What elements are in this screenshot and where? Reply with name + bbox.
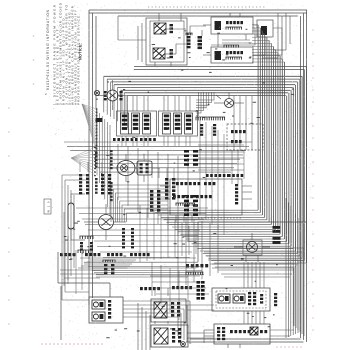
right lower verticals [285, 198, 287, 338]
switch chain SC1 [79, 174, 82, 176]
center corner wires [196, 92, 214, 100]
module row 1 [176, 182, 179, 185]
frame outer top [89, 9, 307, 11]
top-center element box [146, 18, 187, 65]
door lock box dashes [198, 217, 242, 219]
left margin perforation dots [8, 107, 10, 109]
terminal row TRB [107, 253, 110, 256]
top dotted fold line [148, 6, 266, 8]
chain TC5 [122, 228, 125, 230]
connector comb P5 [195, 117, 197, 120]
bank lower glyph row [113, 138, 116, 141]
plug block P6 [104, 264, 107, 267]
left feeder wires [61, 175, 63, 300]
switch group A box [117, 111, 157, 136]
terminal comb TR [223, 45, 225, 48]
door lock box [198, 222, 306, 262]
relay RLB [92, 312, 105, 321]
door switch leads [84, 221, 99, 223]
bundle bottom corner wires [214, 262, 307, 264]
frame bottom right [190, 338, 301, 340]
fuse link F1 [68, 203, 74, 229]
relay pair drops left [137, 303, 139, 350]
terminal ring [94, 90, 99, 95]
chain top leads [79, 162, 81, 172]
bundle top corner links [252, 61, 285, 63]
terminal chain TC1 [95, 152, 98, 154]
connector block P3 [187, 36, 191, 38]
door switch motor M4 [99, 215, 114, 230]
svg-text:W10: W10 [47, 201, 51, 213]
board components [231, 130, 234, 133]
oven fan icon [154, 328, 168, 344]
relay side chain [274, 293, 277, 295]
control board dashed box [227, 124, 263, 150]
infinite switch SW1 [121, 113, 129, 134]
terminal stack TS1 [197, 281, 201, 284]
bottom row box [214, 324, 270, 344]
connector pigtails B [213, 124, 216, 126]
wires top-center [166, 28, 186, 30]
svg-text:8101P641-60 WIRING INFORMATIO: 8101P641-60 WIRING INFORMATION [46, 9, 50, 90]
mid cross verticals [199, 118, 201, 215]
relay stack R2 [165, 178, 168, 181]
terminal chain TC4 [110, 182, 113, 184]
relay RL1 [218, 294, 230, 303]
lock cluster extra harness [212, 263, 298, 265]
limit switch row A [226, 21, 229, 24]
lock motor M5 [247, 242, 258, 253]
left feeder horizontals [62, 174, 89, 176]
module row 2 [173, 195, 176, 198]
convection fan icon [154, 302, 167, 318]
harness wires above lock cluster [202, 247, 304, 249]
latch motor leads [214, 102, 225, 104]
bottom margin dotted line [41, 343, 43, 345]
limit switch row B [226, 51, 229, 54]
pilot glyph row [140, 287, 143, 290]
fan circle terminal [181, 342, 186, 347]
bottom-center harness wires [80, 257, 196, 259]
wires top-right [203, 24, 211, 26]
module cross verticals [231, 150, 233, 184]
surface element SU1 [154, 23, 166, 34]
bundle corner stubs down [177, 215, 179, 288]
ground strap [58, 282, 110, 284]
clock side glyph R [120, 91, 123, 93]
interlock comb [79, 236, 81, 239]
lower-left mesh v [139, 205, 141, 262]
infinite switch SW4 [163, 113, 171, 134]
oven sensor box [257, 20, 273, 37]
chain box lower [151, 325, 188, 347]
splice beads SP1 [273, 226, 281, 229]
vertical feeders through cluster [243, 262, 245, 288]
relay contacts RL [248, 292, 251, 294]
connector column CCB [184, 195, 189, 198]
lower-left corner nest [78, 267, 128, 269]
top-right circuit box B [211, 47, 253, 63]
wires at clock [97, 95, 107, 97]
chain TC6 [131, 228, 134, 230]
infinite switch SW3 [143, 113, 151, 134]
oven light assembly [117, 161, 135, 176]
bottom harness wires [150, 275, 200, 277]
fan terminal strip [96, 108, 98, 156]
infinite switch SW5 [174, 113, 182, 134]
terminal row TRA [60, 253, 63, 256]
frame right border [300, 16, 302, 338]
bus left corner drops [103, 76, 105, 112]
latch relay box [212, 288, 270, 311]
thermal fuse [96, 118, 103, 122]
connector pigtails A [200, 124, 203, 126]
module-bundle links [198, 144, 244, 146]
relay pair wires [123, 300, 190, 302]
oven sensor icon [261, 26, 267, 35]
switch bank top leads [121, 96, 123, 111]
igniter row [186, 264, 189, 267]
stack leads [151, 168, 153, 178]
switch chain SC4 [108, 174, 111, 176]
link glyph row [206, 174, 209, 177]
fan terminal strip 2 [94, 147, 96, 148]
relay contacts [108, 300, 111, 303]
relay stack R1 [150, 190, 153, 193]
switch chain SC2 [86, 174, 89, 176]
interlock comb 2 [77, 250, 79, 253]
infinite switch SW6 [185, 113, 193, 134]
right wire bundle [306, 67, 308, 264]
svg-text:NOTICE:: NOTICE: [79, 43, 83, 60]
fuse leads [70, 194, 72, 203]
bottom row glyphs [217, 327, 220, 329]
mid harness drops [117, 144, 119, 200]
connector column CCA [184, 150, 189, 153]
relay stack R3 [172, 178, 175, 181]
latch motor M3 [225, 99, 234, 108]
relay RL2 [233, 294, 245, 303]
splice beads SP2 [273, 237, 281, 240]
lock motor frame [243, 240, 262, 255]
module column [235, 184, 238, 186]
switch module leads [152, 167, 160, 169]
switch bank bottom leads [121, 136, 123, 146]
surface element SU2 [153, 48, 165, 59]
bottom row wires [270, 329, 294, 331]
broil element icon [215, 21, 222, 30]
top-right feeder wires [277, 13, 279, 58]
bottom band harness [92, 267, 196, 269]
mid harness wires [64, 141, 252, 143]
module wires [160, 185, 170, 187]
clock side glyph L [104, 91, 107, 93]
chain box upper [151, 299, 186, 322]
relay pair drops [189, 301, 191, 344]
top-right circuit box A [211, 17, 253, 34]
harness fan-out [82, 104, 97, 109]
switch group B box [159, 111, 198, 136]
wire color code labels [187, 51, 190, 54]
terminal chain TC2 [95, 178, 98, 180]
left margin stamp [44, 199, 51, 214]
control module box [170, 179, 242, 215]
lower-left mesh h [76, 207, 208, 209]
bottom-center harness drops [151, 262, 153, 296]
infinite switch SW2 [132, 113, 140, 134]
frame left border [88, 10, 90, 305]
relay RLA [92, 300, 105, 309]
chain cluster leads [154, 288, 156, 296]
bake element icon [215, 51, 222, 60]
left lower verticals [63, 212, 65, 286]
clock motor M1 [107, 90, 118, 101]
left vertical harness [96, 110, 98, 175]
switch block S2 [170, 49, 174, 51]
switch chain SC3 [101, 174, 104, 176]
switch block S1 [170, 24, 174, 26]
switch module SM [137, 161, 152, 175]
terminal chain TC3 [110, 150, 113, 152]
module nested corners [111, 185, 168, 222]
bus wire band [134, 66, 307, 68]
right margin perforation dots [312, 29, 314, 31]
verticals through control area [233, 96, 235, 150]
connector block P4 [198, 36, 203, 39]
harness right corner drops [303, 248, 305, 336]
relay pair box [89, 297, 123, 323]
lamp leads [108, 167, 117, 169]
